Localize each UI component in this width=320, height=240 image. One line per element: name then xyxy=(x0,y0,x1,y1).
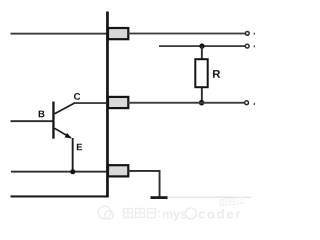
terminal T3 output circle xyxy=(245,101,249,105)
wire W8 resistor bottom stub xyxy=(201,88,203,103)
pad P1 connector pad top xyxy=(108,28,128,39)
terminal T2 output circle xyxy=(245,44,249,48)
junction J1 on wire W6 xyxy=(199,43,204,48)
junction J2 on collector output wire xyxy=(199,100,205,106)
wire W6 second supply wire xyxy=(159,45,245,47)
transistor Q1 base bar xyxy=(52,102,54,139)
label R value xyxy=(213,70,220,78)
watermark text CJK blocks xyxy=(124,209,156,218)
terminal T1 edge mark xyxy=(254,33,256,35)
label E pin xyxy=(77,144,82,151)
wire faint extension right of ground xyxy=(168,197,252,198)
resistor R xyxy=(195,59,207,87)
svg-text:coder: coder xyxy=(198,207,242,222)
wire W9 pad2 to terminal 3 xyxy=(128,102,245,104)
label C pin xyxy=(74,93,80,100)
wire W1 top-left supply wire xyxy=(11,33,108,35)
terminal T2 edge mark xyxy=(254,45,256,47)
watermark colon xyxy=(159,211,161,218)
ground xyxy=(151,196,168,199)
terminal T3 edge mark xyxy=(254,103,256,105)
transistor Q1 collector diagonal xyxy=(55,103,75,114)
wire W11 emitter vertical wire xyxy=(72,138,74,172)
watermark mid circle glyph xyxy=(186,208,197,219)
wire W7 resistor top stub xyxy=(201,46,203,59)
watermark logo xyxy=(98,206,113,219)
wire W12 pad3 to ground xyxy=(128,170,161,172)
wire W5 pad1 to terminal 1 xyxy=(128,33,245,35)
wire W13 ground vertical xyxy=(159,170,161,197)
wire W10 collector wire to bus xyxy=(74,102,107,104)
transistor Q1 emitter diagonal xyxy=(55,128,71,138)
pad P2 connector pad middle xyxy=(108,97,128,108)
terminal T1 output circle xyxy=(245,32,249,36)
junction J3 emitter to row wire xyxy=(70,169,75,174)
wire W4 bottom wire xyxy=(11,195,109,197)
transistor Q1 emitter arrowhead xyxy=(65,133,72,138)
watermark small text blocks xyxy=(220,197,244,205)
svg-text:mys: mys xyxy=(162,208,187,222)
wire W3 emitter row wire xyxy=(11,171,108,173)
wire W2 base wire left xyxy=(11,120,54,122)
pad P3 connector pad bottom xyxy=(108,165,128,176)
label B pin xyxy=(39,111,45,118)
wire bus vertical line xyxy=(106,12,109,198)
